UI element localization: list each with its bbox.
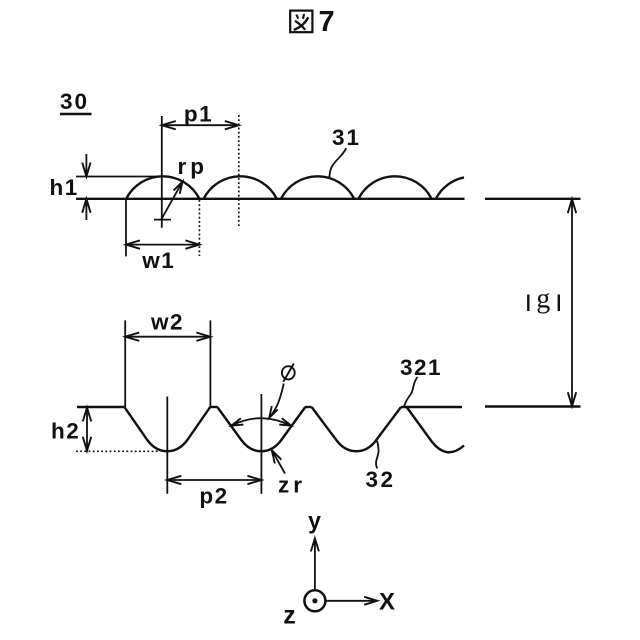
svg-text:zr: zr: [278, 473, 306, 498]
svg-text:X: X: [379, 589, 395, 616]
svg-text:p2: p2: [199, 484, 228, 509]
svg-text:30: 30: [60, 89, 89, 114]
svg-text:31: 31: [332, 125, 361, 150]
svg-text:g: g: [536, 284, 550, 315]
svg-text:z: z: [283, 602, 296, 630]
svg-text:w1: w1: [141, 248, 175, 273]
svg-text:h1: h1: [50, 175, 79, 200]
svg-text:h2: h2: [51, 418, 80, 443]
svg-text:321: 321: [400, 355, 442, 380]
svg-text:32: 32: [366, 467, 396, 492]
svg-text:7: 7: [319, 6, 335, 38]
svg-text:rp: rp: [178, 154, 209, 179]
svg-text:p1: p1: [184, 101, 213, 126]
svg-text:y: y: [308, 508, 321, 534]
svg-text:w2: w2: [150, 310, 184, 335]
